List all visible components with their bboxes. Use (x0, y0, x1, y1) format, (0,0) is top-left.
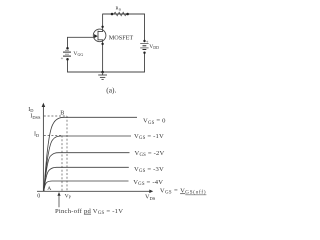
ground (101, 71, 104, 74)
svg-text:A: A (47, 186, 51, 192)
wire right rail lower (144, 53, 146, 72)
svg-text:ID: ID (28, 107, 33, 113)
wire source lead (102, 40, 104, 72)
curve VGS=-4V (44, 181, 129, 191)
svg-text:VDS: VDS (145, 194, 156, 201)
svg-text:ID: ID (34, 132, 39, 138)
wire bottom rail (68, 71, 145, 73)
resistor R_D (114, 12, 127, 15)
curve VGS=-1V (44, 136, 131, 191)
x axis VDS (37, 190, 150, 192)
svg-text:Pinch-off pd VGS = -1V: Pinch-off pd VGS = -1V (55, 208, 123, 216)
dashed vertical from B (66, 116, 68, 191)
dashed vertical at ID knee (61, 136, 63, 192)
svg-text:+: + (61, 57, 64, 62)
gate arrowhead (94, 34, 98, 38)
svg-text:VGS = VGS(off): VGS = VGS(off) (160, 187, 206, 195)
curve VGS=-2V (44, 153, 130, 191)
wire drain lead (102, 14, 104, 32)
y axis ID (42, 105, 44, 191)
svg-text:IDSS: IDSS (30, 114, 41, 120)
svg-text:VGS = 0: VGS = 0 (143, 118, 166, 126)
wire left rail lower (67, 60, 69, 73)
svg-text:VGS = -2V: VGS = -2V (135, 150, 165, 158)
svg-text:(a).: (a). (106, 86, 116, 95)
svg-text:0: 0 (37, 193, 40, 199)
battery VDD (143, 40, 145, 42)
wire left rail (67, 37, 69, 48)
svg-text:VDD: VDD (149, 44, 159, 50)
svg-text:RD: RD (116, 6, 122, 12)
battery VGG (66, 47, 69, 50)
svg-text:VGG: VGG (73, 51, 83, 57)
dashed ID line (44, 135, 62, 137)
svg-text:MOSFET: MOSFET (109, 35, 134, 42)
node source dot (101, 43, 103, 45)
dashed IDSS line (44, 115, 67, 117)
arrow VP (58, 195, 60, 208)
svg-text:B: B (60, 110, 64, 116)
svg-text:VGS = -3V: VGS = -3V (134, 166, 164, 174)
wire top rail (103, 13, 145, 15)
svg-text:VP: VP (65, 193, 72, 199)
curve VGS=-3V (44, 167, 129, 191)
svg-text:VGS = -1V: VGS = -1V (134, 133, 164, 141)
wire right rail (144, 14, 146, 41)
transistor Q1 (JFET) (93, 29, 106, 42)
wire gate (68, 36, 94, 38)
node drain dot (101, 26, 103, 28)
curve VGS=0 (44, 117, 137, 191)
svg-text:VGS = -4V: VGS = -4V (133, 179, 163, 187)
